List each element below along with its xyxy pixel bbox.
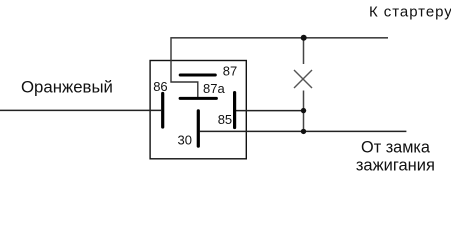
svg-text:Оранжевый: Оранжевый bbox=[21, 77, 113, 96]
svg-text:К стартеру: К стартеру bbox=[369, 3, 451, 20]
svg-text:30: 30 bbox=[178, 133, 192, 148]
svg-text:87: 87 bbox=[223, 64, 237, 79]
svg-text:От замка: От замка bbox=[361, 139, 431, 157]
svg-text:86: 86 bbox=[153, 79, 167, 94]
svg-text:87а: 87а bbox=[203, 81, 225, 96]
svg-text:зажигания: зажигания bbox=[356, 157, 435, 175]
svg-text:85: 85 bbox=[218, 112, 232, 127]
